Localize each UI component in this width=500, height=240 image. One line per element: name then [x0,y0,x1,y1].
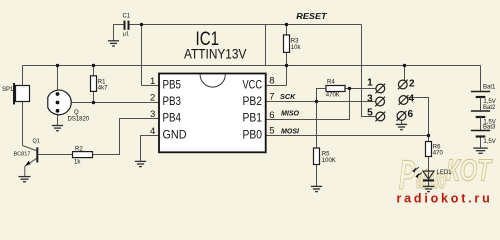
svg-text:radiokot.ru: radiokot.ru [397,191,493,205]
svg-text:C1: C1 [123,14,131,20]
svg-text:5: 5 [269,126,274,137]
svg-text:6: 6 [269,110,274,121]
svg-text:1: 1 [150,76,155,87]
LED VD1 LED1 [412,167,452,186]
wire RESET drop to connector pin 5 [362,25,377,117]
wire C1 right to RESET net [129,24,141,26]
ground (Q1 emitter) [19,177,31,182]
wire RESET riser to PB5 pin 1 [141,25,143,86]
ground (DS1820) [52,126,63,131]
connector pin 4 [399,93,415,105]
wire battery cell2-cell3 [480,117,482,131]
node junction R1 top on VCC [92,64,95,67]
wire MOSI line pin 5 [266,135,429,137]
svg-text:R2: R2 [75,146,83,152]
ground (IC pin 4 GND) [135,161,146,166]
wire connector pin6 to ground [401,120,403,124]
svg-text:6: 6 [408,109,414,120]
svg-text:MOSI: MOSI [281,128,300,135]
wire DS1820 pin3 to ground [57,111,59,125]
svg-text:4: 4 [409,93,415,104]
svg-text:2: 2 [150,93,155,104]
resistor R5 100K [314,148,336,165]
svg-text:1,5V: 1,5V [483,139,495,145]
svg-text:4: 4 [150,126,155,137]
wire battery stem [480,66,482,148]
wire pin 1 stub [142,85,160,87]
connector pin 3 [367,94,385,107]
wire connector pin2 drop from VCC [404,66,406,81]
ground (LED) [423,186,434,191]
wire connector pin1 row [350,88,377,90]
node junction R4 right / MISO [348,87,351,90]
svg-text:PB3: PB3 [163,96,182,108]
svg-text:VCC: VCC [243,79,263,91]
svg-text:GND: GND [163,129,187,141]
ground (R5) [311,186,322,191]
svg-text:8: 8 [269,76,274,87]
resistor R6 470 [426,142,444,157]
transistor Q1 BC817 [14,138,40,176]
svg-text:1k: 1k [74,159,81,165]
wire IC pin 4 to ground [141,136,160,162]
battery Bat2 cell [471,105,496,126]
svg-text:Bat1: Bat1 [483,84,496,90]
svg-text:100K: 100K [322,158,336,164]
svg-text:μ1: μ1 [123,32,129,38]
svg-text:LED1: LED1 [437,170,453,176]
connector pin 1 [367,78,385,94]
wire SCK line pin 7 to connector pin 3 [266,101,376,103]
wire MISO line pin 6 riser [266,89,350,120]
svg-text:5: 5 [367,108,373,119]
node junction R3/pin8 on VCC [285,64,288,67]
node junction R4/R5 on SCK [315,100,318,103]
wire DS1820 pin1 to VCC [57,66,59,95]
node junction MOSI / R6 [427,134,430,137]
capacitor C1 [123,14,131,38]
svg-text:SP1: SP1 [2,87,14,93]
svg-text:R6: R6 [433,144,441,150]
wire SP1 bottom to Q1 collector [22,102,24,146]
svg-text:BC817: BC817 [14,152,31,158]
node junction C1/RESET [140,23,143,26]
resistor R1 4k7 [91,76,109,92]
wire R2 right to IC pin 3 [93,119,160,155]
wire DS1820 data to IC pin 2 [58,102,160,104]
connector pin 6 [397,109,414,121]
resistor R4 470K [326,79,345,98]
svg-text:1: 1 [367,78,373,89]
buzzer SP1 [2,83,30,104]
wire connector pin4 to MOSI junction [407,98,428,136]
resistor R3 10k [284,35,302,53]
wire R6 leads [428,136,430,172]
wire VCC rail left drop to SP1 [22,66,24,86]
svg-text:Q: Q [74,110,79,116]
svg-text:КОТ: КОТ [446,153,493,188]
svg-text:Bat3: Bat3 [483,124,496,130]
svg-text:PB4: PB4 [163,113,182,125]
svg-text:Bat2: Bat2 [483,105,496,111]
svg-text:DS1820: DS1820 [68,116,90,122]
wire R4 right lead to MISO row [345,88,350,90]
wire IC title box right edge [265,25,267,66]
IC IC1 ATTINY13V [159,28,266,152]
wire RESET net top [142,24,362,26]
node junction DS1820 VCC [56,64,59,67]
wire R5 drop from SCK junction [316,102,318,187]
svg-text:SCK: SCK [280,94,296,101]
battery Bat1 cell [471,84,496,105]
ground (connector pin 6) [396,124,407,129]
wire R1 leads [93,66,95,103]
node junction R1 bottom on data line [92,101,95,104]
svg-text:3: 3 [150,109,155,120]
connector pin 2 [398,79,415,90]
svg-text:PB2: PB2 [243,96,263,108]
battery Bat3 cell [471,124,496,145]
svg-text:470K: 470K [326,93,340,99]
svg-text:R3: R3 [291,39,299,45]
svg-text:PB1: PB1 [243,113,263,125]
resistor R2 1k [73,146,93,165]
watermark ghost logo [399,151,493,198]
svg-text:470: 470 [433,151,444,157]
ground (battery) [473,148,487,153]
temperature sensor Q DS1820 [48,90,90,122]
wire R4 left lead down to SCK [317,89,327,102]
svg-text:ATTINY13V: ATTINY13V [184,45,247,61]
ground (C1) [108,41,119,46]
wire R3 net RESET to VCC to pin 8 [266,25,287,86]
svg-text:R5: R5 [322,151,330,157]
svg-text:PB5: PB5 [163,79,182,91]
svg-text:7: 7 [269,91,274,102]
wire C1 left to ground [114,25,124,41]
svg-text:PB0: PB0 [243,129,263,141]
wire VCC rail [23,65,481,67]
node junction pin2 drop on VCC [403,64,406,67]
node junction R3 top on RESET [285,23,288,26]
wire battery cell1-cell2 [480,97,482,111]
svg-text:R4: R4 [327,79,335,85]
svg-text:MISO: MISO [281,111,300,118]
wire Q1 base to R2 [38,154,72,156]
connector pin 5 [367,108,385,122]
svg-text:4k7: 4k7 [98,85,108,91]
svg-text:Q1: Q1 [33,138,40,144]
svg-text:10k: 10k [291,45,302,51]
svg-text:RESET: RESET [296,12,328,21]
svg-text:3: 3 [367,94,373,105]
svg-text:2: 2 [409,79,415,90]
